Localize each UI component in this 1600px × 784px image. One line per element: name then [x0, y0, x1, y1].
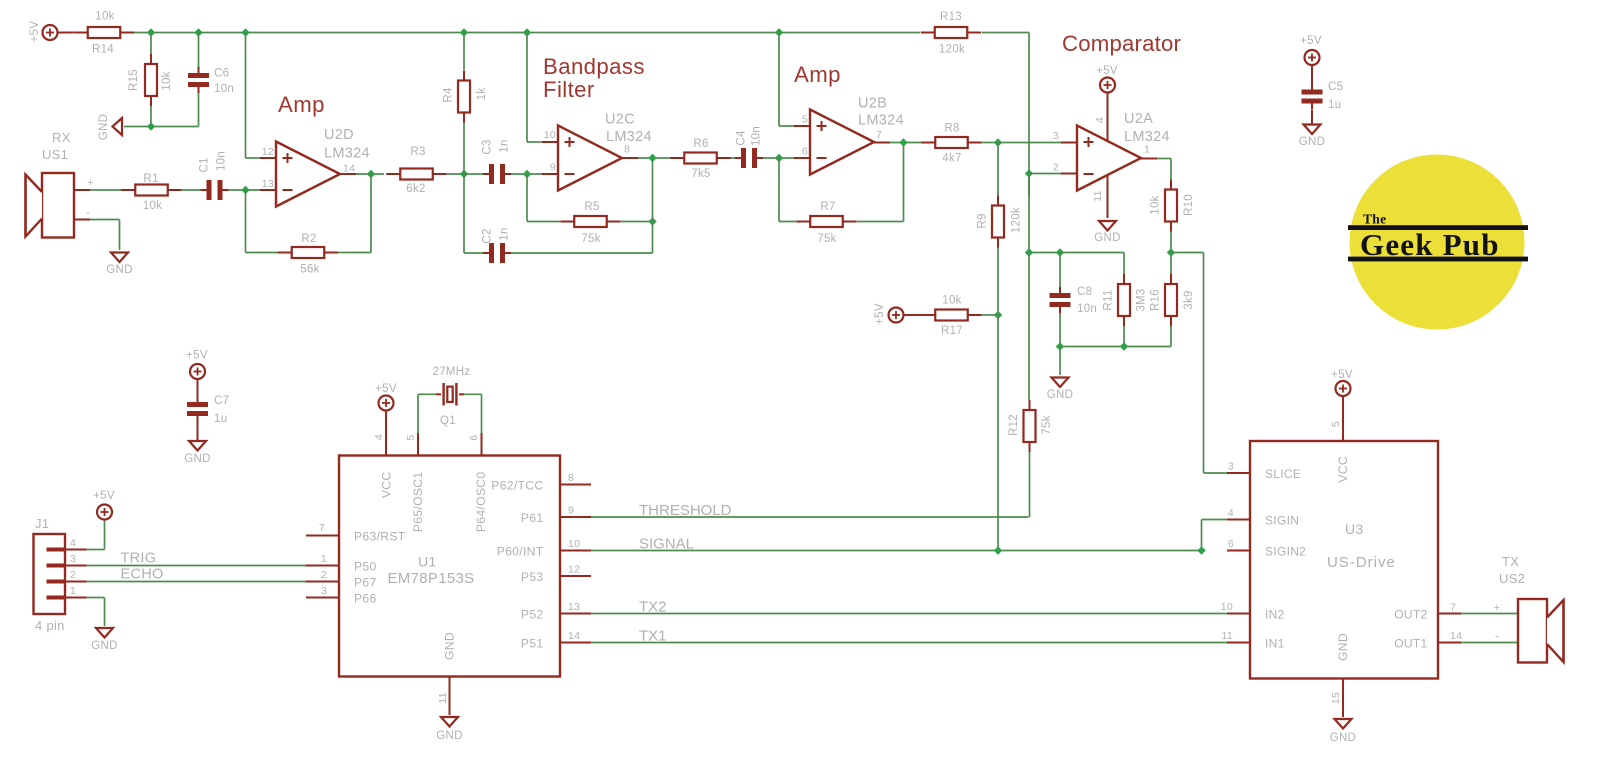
svg-text:1n: 1n — [499, 139, 511, 152]
svg-text:R14: R14 — [92, 44, 114, 56]
pin 3 stub J1 — [65, 565, 87, 567]
svg-text:120k: 120k — [1011, 207, 1023, 233]
right pins U1 — [560, 484, 591, 486]
node bandpass input — [460, 170, 468, 178]
svg-text:+5V: +5V — [375, 383, 397, 395]
svg-text:EM78P153S: EM78P153S — [388, 570, 475, 587]
node rail junction U2B drop — [775, 28, 783, 36]
svg-text:SIGIN: SIGIN — [1265, 514, 1299, 528]
wire top rail — [134, 32, 920, 34]
svg-text:4: 4 — [373, 434, 385, 440]
wire R1 to C1 — [182, 189, 203, 191]
wire R3 to node — [447, 173, 464, 175]
svg-text:P61: P61 — [521, 511, 544, 525]
ground GND below US1 — [111, 253, 128, 263]
svg-text:8: 8 — [568, 472, 574, 484]
svg-text:C4: C4 — [736, 130, 748, 146]
capacitor C3 — [464, 173, 483, 175]
op-amp U2B LM324 — [810, 110, 874, 175]
svg-text:7: 7 — [876, 129, 882, 141]
svg-text:U2C: U2C — [605, 112, 635, 128]
svg-text:U2A: U2A — [1124, 111, 1153, 127]
pin 4 stub J1 — [65, 549, 87, 551]
svg-text:P60/INT: P60/INT — [497, 545, 544, 559]
op-amp U2A LM324 — [1077, 126, 1141, 191]
wire rail drop to U2C + — [526, 33, 528, 143]
svg-text:10k: 10k — [942, 295, 961, 307]
wire rail drop to U2D + — [245, 33, 247, 159]
svg-text:R16: R16 — [1150, 289, 1162, 311]
pin 6 wire — [481, 394, 483, 433]
svg-text:1k: 1k — [476, 88, 488, 101]
svg-text:-: - — [1495, 631, 1499, 643]
pin 10 IN2 — [1227, 613, 1250, 615]
svg-text:GND: GND — [1336, 633, 1350, 661]
pin 2 stub — [1061, 173, 1077, 175]
node rail junction U2D drop — [241, 28, 249, 36]
wire TRIG — [87, 565, 307, 567]
+5V for U2A — [1100, 78, 1115, 93]
svg-text:10n: 10n — [751, 126, 763, 146]
+5V supply (top left) — [43, 25, 58, 40]
svg-text:US-Drive: US-Drive — [1327, 554, 1396, 571]
ground GND below J1 — [96, 628, 113, 638]
pin - of US1 — [74, 219, 90, 221]
svg-text:13: 13 — [262, 178, 274, 190]
svg-text:GND: GND — [184, 453, 210, 465]
svg-text:SIGIN2: SIGIN2 — [1265, 545, 1306, 559]
node U2B output — [899, 138, 907, 146]
svg-text:R3: R3 — [410, 146, 425, 158]
resistor R7 — [796, 221, 810, 223]
node rail junction R15 — [147, 28, 155, 36]
svg-text:RX: RX — [52, 130, 71, 145]
resistor R12 — [1029, 400, 1031, 410]
svg-text:C6: C6 — [214, 68, 229, 80]
wire R5 to output node — [621, 221, 653, 223]
pin 8 stub / output U2C — [622, 157, 638, 159]
svg-text:56k: 56k — [300, 264, 319, 276]
wire R2 to output node — [338, 252, 371, 254]
svg-text:+5V: +5V — [874, 303, 886, 325]
svg-text:TX1: TX1 — [639, 628, 667, 645]
svg-text:U2D: U2D — [324, 127, 354, 143]
pin 15 GND stub U3 — [1342, 679, 1344, 718]
node R10/R16 — [1167, 248, 1175, 256]
resistor R10 — [1170, 180, 1172, 190]
bus inverting node to C8/R11 — [1029, 252, 1124, 254]
svg-text:P67: P67 — [354, 576, 377, 590]
svg-text:R10: R10 — [1183, 194, 1195, 216]
svg-text:4 pin: 4 pin — [35, 618, 65, 633]
wire output down through R10 — [1170, 159, 1172, 185]
feedback wire U2B to R7 — [778, 158, 780, 222]
svg-text:14: 14 — [568, 630, 580, 642]
svg-text:10n: 10n — [216, 151, 228, 171]
node rail junction C6 — [194, 28, 202, 36]
ground GND below U2A — [1099, 221, 1116, 231]
pin 5 wire — [417, 394, 419, 433]
IC U3 US-Drive — [1250, 441, 1438, 679]
svg-text:R6: R6 — [693, 138, 708, 150]
ground GND below C7 — [189, 441, 206, 451]
wire R8 to node — [982, 142, 998, 144]
svg-text:C7: C7 — [214, 395, 229, 407]
node rail junction R4 — [460, 28, 468, 36]
svg-text:5: 5 — [1330, 421, 1342, 427]
svg-text:Q1: Q1 — [440, 415, 456, 427]
svg-text:120k: 120k — [939, 44, 965, 56]
svg-text:10: 10 — [544, 129, 556, 141]
svg-text:3: 3 — [1053, 130, 1059, 142]
svg-text:3: 3 — [70, 553, 76, 565]
svg-text:VCC: VCC — [1336, 456, 1350, 483]
svg-text:1u: 1u — [214, 413, 227, 425]
pin 11 IN1 — [1227, 642, 1250, 644]
pin 2 stub J1 — [65, 581, 87, 583]
node C8 bottom — [1056, 342, 1064, 350]
svg-text:+5V: +5V — [93, 490, 115, 502]
resistor R5 — [560, 221, 574, 223]
resistor R15 — [150, 33, 152, 55]
wire R13 to comparator drop — [982, 32, 1029, 34]
node junction gnd rail — [147, 122, 155, 130]
resistor R11 — [1123, 274, 1125, 284]
svg-text:12: 12 — [568, 564, 580, 576]
node R5/C2 to output — [648, 217, 656, 225]
left pins U1 — [306, 535, 339, 537]
feedback wire U2C to R5 — [526, 174, 528, 222]
svg-text:P52: P52 — [521, 608, 544, 622]
svg-text:4: 4 — [70, 537, 76, 549]
svg-text:P63/RST: P63/RST — [354, 530, 406, 544]
resistor R13 (top) — [921, 32, 935, 34]
ground GND below C8 — [1052, 378, 1069, 388]
svg-text:10: 10 — [1221, 601, 1233, 613]
pin 3 stub — [1061, 142, 1077, 144]
svg-text:10: 10 — [568, 538, 580, 550]
wire comparator node down to R12 — [1028, 253, 1030, 401]
resistor R1 — [121, 189, 135, 191]
svg-text:ECHO: ECHO — [121, 567, 164, 583]
svg-text:+: + — [87, 177, 94, 189]
ground GND below U3 — [1335, 719, 1352, 729]
svg-text:C2: C2 — [482, 228, 494, 243]
node U2C inverting input — [523, 170, 531, 178]
svg-text:GND: GND — [106, 264, 132, 276]
svg-text:Bandpass: Bandpass — [543, 54, 645, 79]
resistor R2 — [278, 252, 292, 254]
node SIGNAL R9 — [994, 546, 1002, 554]
svg-text:IN2: IN2 — [1265, 608, 1285, 622]
pin 5 VCC stub U3 — [1342, 396, 1344, 442]
svg-text:OUT2: OUT2 — [1394, 608, 1427, 622]
svg-text:13: 13 — [568, 601, 580, 613]
pin 14 OUT1 — [1438, 642, 1461, 644]
svg-text:4: 4 — [1228, 507, 1234, 519]
pin 7 stub / output U2B — [874, 142, 890, 144]
ground GND below C5 — [1304, 125, 1321, 135]
svg-text:C8: C8 — [1077, 286, 1092, 298]
node bus at x1029 — [1025, 248, 1033, 256]
svg-text:1: 1 — [321, 553, 327, 565]
pin 11 ground — [1107, 175, 1109, 218]
svg-text:6: 6 — [802, 146, 808, 158]
+5V for U3 — [1336, 381, 1351, 396]
svg-text:TRIG: TRIG — [121, 551, 157, 567]
capacitor C4 — [741, 148, 746, 168]
svg-text:1: 1 — [1144, 144, 1150, 156]
pin 4 mark J1 — [47, 548, 66, 552]
svg-text:P66: P66 — [354, 592, 377, 606]
svg-text:15: 15 — [1330, 692, 1342, 704]
wire ECHO — [87, 581, 307, 583]
resistor R16 — [1170, 253, 1172, 275]
svg-text:6k2: 6k2 — [406, 183, 425, 195]
svg-text:11: 11 — [437, 692, 449, 704]
svg-text:C1: C1 — [199, 157, 211, 172]
feedback wire to R2 — [245, 190, 247, 253]
pin + of US1 — [74, 189, 90, 191]
svg-text:5: 5 — [802, 114, 808, 126]
IC U1 EM78P153S — [339, 456, 560, 677]
wire gnd rail left — [124, 126, 199, 128]
op-amp U2D LM324 — [276, 142, 340, 207]
wire gnd drop from bottom bus — [1059, 347, 1061, 376]
svg-text:7: 7 — [319, 522, 325, 534]
svg-text:Geek Pub: Geek Pub — [1360, 227, 1500, 262]
pin 6 stub — [794, 157, 810, 159]
svg-text:5: 5 — [405, 434, 417, 440]
svg-text:P51: P51 — [521, 637, 544, 651]
ground GND (rotated, left of R15) — [113, 118, 123, 135]
svg-text:+5V: +5V — [1300, 35, 1322, 47]
svg-text:+5V: +5V — [1331, 369, 1353, 381]
svg-text:R7: R7 — [820, 201, 835, 213]
resistor R14 — [74, 32, 88, 34]
+5V for U1 — [379, 396, 394, 411]
svg-text:12: 12 — [262, 146, 274, 158]
svg-text:2: 2 — [321, 569, 327, 581]
svg-text:7: 7 — [1450, 602, 1456, 614]
svg-text:LM324: LM324 — [324, 146, 370, 162]
logo The Geek Pub — [1350, 155, 1525, 330]
wire U2A inverting from R13 drop — [1028, 174, 1030, 197]
svg-text:2: 2 — [70, 569, 76, 581]
pin 12 stub — [260, 157, 276, 159]
svg-text:LM324: LM324 — [858, 113, 904, 129]
svg-text:10n: 10n — [214, 83, 234, 95]
pin 10 stub — [542, 141, 558, 143]
svg-text:OUT1: OUT1 — [1394, 637, 1427, 651]
svg-text:9: 9 — [568, 505, 574, 517]
svg-text:P64/OSC0: P64/OSC0 — [474, 472, 488, 533]
wire US1 minus to gnd — [119, 220, 121, 251]
svg-text:10k: 10k — [95, 11, 114, 23]
bottom bus C8/R11/R16 — [1060, 346, 1171, 348]
node U2C output — [648, 154, 656, 162]
svg-text:GND: GND — [1330, 732, 1356, 744]
svg-text:US2: US2 — [1499, 571, 1525, 586]
svg-text:C3: C3 — [482, 139, 494, 154]
pin 7 OUT2 — [1438, 613, 1461, 615]
svg-text:R2: R2 — [301, 233, 316, 245]
svg-text:GND: GND — [98, 114, 110, 140]
pin 11 GND stub U1 — [449, 677, 451, 716]
svg-text:11: 11 — [1092, 190, 1104, 202]
node inverting input U2D — [241, 186, 249, 194]
node R17 junction — [994, 311, 1002, 319]
svg-text:P50: P50 — [354, 560, 377, 574]
svg-text:IN1: IN1 — [1265, 637, 1285, 651]
svg-text:R12: R12 — [1008, 414, 1020, 436]
capacitor C5 — [1302, 90, 1323, 95]
pin 4 VCC stub — [385, 410, 387, 456]
svg-text:6: 6 — [468, 434, 480, 440]
svg-text:C5: C5 — [1328, 81, 1343, 93]
wire R6 to C4 — [731, 157, 736, 159]
wire C1 to node — [229, 189, 261, 191]
svg-text:GND: GND — [91, 640, 117, 652]
svg-text:R5: R5 — [584, 201, 599, 213]
svg-text:+: + — [1494, 602, 1501, 614]
svg-text:+5V: +5V — [29, 21, 41, 43]
svg-text:11: 11 — [1222, 630, 1234, 642]
pin 9 stub — [542, 173, 558, 175]
svg-text:R13: R13 — [940, 11, 962, 23]
node rail junction U2C drop — [523, 28, 531, 36]
svg-text:3k9: 3k9 — [1183, 290, 1195, 309]
pin 2 mark J1 — [47, 580, 66, 584]
svg-text:3: 3 — [1228, 461, 1234, 473]
svg-text:+5V: +5V — [186, 350, 208, 362]
node SIGNAL branch — [1197, 546, 1205, 554]
svg-text:SLICE: SLICE — [1265, 467, 1301, 481]
wire down to R11 — [1123, 253, 1125, 275]
svg-text:10k: 10k — [1150, 195, 1162, 214]
svg-text:SIGNAL: SIGNAL — [639, 536, 694, 553]
svg-text:3: 3 — [321, 585, 327, 597]
svg-text:U1: U1 — [418, 554, 437, 570]
svg-text:THRESHOLD: THRESHOLD — [639, 502, 732, 519]
svg-text:R8: R8 — [944, 123, 959, 135]
pin 14 stub / output wire — [340, 173, 356, 175]
resistor R6 — [670, 157, 684, 159]
svg-text:P65/OSC1: P65/OSC1 — [411, 472, 425, 533]
wire J1 pin1 to gnd — [87, 597, 105, 599]
svg-text:R11: R11 — [1103, 289, 1115, 310]
svg-text:6: 6 — [1228, 538, 1234, 550]
pin 1 output stub — [1141, 158, 1157, 160]
pin 3 mark J1 — [47, 564, 66, 568]
+5V for C5 — [1305, 50, 1320, 65]
pin 5 stub — [794, 125, 810, 127]
svg-text:2: 2 — [1053, 162, 1059, 174]
svg-text:R9: R9 — [977, 213, 989, 228]
capacitor C1 — [207, 180, 212, 200]
capacitor C8 — [1059, 253, 1061, 288]
svg-text:4k7: 4k7 — [942, 153, 961, 165]
pin 1 mark J1 — [47, 596, 66, 600]
wire J1 pin4 to +5V — [87, 549, 105, 551]
pin 6 SIGIN2 — [1227, 550, 1250, 552]
resistor R4 — [463, 33, 465, 71]
svg-text:TX: TX — [1502, 554, 1519, 569]
svg-text:75k: 75k — [1041, 415, 1053, 434]
svg-text:R1: R1 — [143, 173, 158, 185]
svg-text:-: - — [86, 207, 90, 219]
svg-text:U2B: U2B — [858, 96, 887, 112]
+5V for R17 — [889, 308, 904, 323]
node R11 bottom — [1120, 342, 1128, 350]
svg-text:Amp: Amp — [794, 62, 841, 87]
svg-text:8: 8 — [624, 144, 630, 156]
op-amp U2C LM324 — [558, 126, 622, 191]
svg-text:GND: GND — [1047, 389, 1073, 401]
svg-text:J1: J1 — [35, 516, 49, 531]
node C8 top — [1056, 248, 1064, 256]
svg-text:4: 4 — [1094, 117, 1106, 123]
svg-text:9: 9 — [550, 162, 556, 174]
resistor R8 — [921, 142, 935, 144]
capacitor C7 — [187, 402, 208, 407]
+5V for C7 — [190, 364, 205, 379]
pin 4 SIGIN — [1227, 519, 1250, 521]
svg-text:10k: 10k — [161, 71, 173, 90]
svg-text:R4: R4 — [443, 87, 455, 103]
svg-text:1n: 1n — [499, 227, 511, 240]
svg-text:10n: 10n — [1077, 303, 1097, 315]
svg-text:27MHz: 27MHz — [433, 366, 471, 378]
resistor R3 — [386, 173, 400, 175]
wire down to SIGNAL — [997, 315, 999, 551]
svg-text:The: The — [1363, 212, 1386, 227]
svg-text:1: 1 — [70, 585, 76, 597]
svg-text:Amp: Amp — [278, 92, 325, 117]
resistor R9 — [997, 143, 999, 197]
pin 1 stub J1 — [65, 597, 87, 599]
svg-text:GND: GND — [443, 632, 457, 660]
svg-text:1u: 1u — [1328, 99, 1341, 111]
svg-text:+5V: +5V — [1096, 65, 1118, 77]
+5V for J1 — [97, 505, 112, 520]
svg-text:10k: 10k — [143, 200, 162, 212]
svg-text:U3: U3 — [1345, 521, 1364, 537]
svg-text:75k: 75k — [581, 233, 600, 245]
svg-text:Filter: Filter — [543, 77, 595, 102]
pin 4 power — [1107, 92, 1109, 142]
pin 13 stub — [260, 189, 276, 191]
svg-text:P53: P53 — [521, 570, 544, 584]
svg-text:GND: GND — [436, 730, 462, 742]
svg-text:GND: GND — [1094, 232, 1120, 244]
svg-text:14: 14 — [343, 163, 355, 175]
svg-text:3M3: 3M3 — [1136, 288, 1148, 311]
svg-text:VCC: VCC — [380, 472, 394, 499]
ground GND below U1 — [441, 717, 458, 727]
svg-text:US1: US1 — [42, 147, 68, 162]
svg-text:Comparator: Comparator — [1062, 31, 1182, 56]
wire slice net — [1171, 252, 1204, 254]
svg-text:14: 14 — [1450, 630, 1462, 642]
node U2D output — [367, 170, 375, 178]
pin 3 SLICE — [1227, 472, 1250, 474]
svg-text:R17: R17 — [941, 325, 963, 337]
node R8/R9/U2A+ — [994, 138, 1002, 146]
wire rail drop to U2B + — [778, 33, 780, 127]
resistor R17 — [921, 314, 935, 316]
capacitor C6 — [198, 33, 200, 68]
